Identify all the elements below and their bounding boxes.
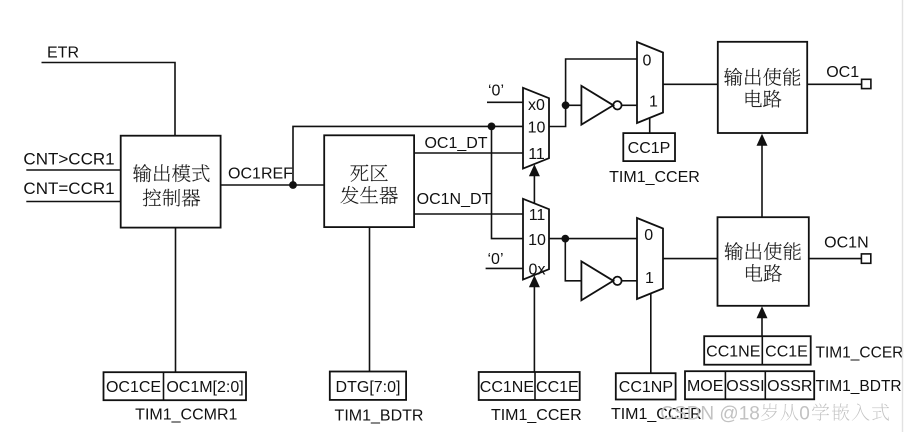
register MOE / OSSI / OSSR bbox=[685, 371, 814, 399]
svg-text:OC1CE: OC1CE bbox=[106, 379, 161, 396]
block U2 dead-time generator bbox=[324, 135, 414, 227]
inverter G2 bbox=[581, 261, 613, 300]
wire M2 output to enable block bbox=[663, 83, 718, 85]
wire U3 output to OC1 pad bbox=[807, 83, 861, 85]
svg-text:ETR: ETR bbox=[47, 45, 79, 62]
svg-text:DTG[7:0]: DTG[7:0] bbox=[336, 379, 401, 396]
svg-text:CC1NP: CC1NP bbox=[619, 379, 673, 396]
junction M3 output branch bbox=[561, 235, 569, 243]
wire U4 output to OC1N pad bbox=[809, 258, 862, 260]
wire OC1REF bbox=[221, 184, 325, 186]
junction on branch bbox=[488, 123, 496, 131]
svg-text:‘0’: ‘0’ bbox=[487, 251, 503, 268]
wire mux M3 output to mux M4 input 0 bbox=[549, 238, 637, 240]
wire G1 to mux M2 input 1 bbox=[622, 104, 637, 106]
wire CNT=CCR1 input bbox=[26, 201, 120, 203]
svg-text:MOE: MOE bbox=[687, 378, 723, 395]
svg-text:OC1N_DT: OC1N_DT bbox=[417, 191, 492, 208]
svg-text:TIM1_CCMR1: TIM1_CCMR1 bbox=[135, 407, 237, 424]
mux M3 bbox=[523, 199, 549, 280]
wire branch down to mux M3 input 10 bbox=[492, 126, 524, 238]
svg-text:OSSI: OSSI bbox=[726, 378, 764, 395]
mux M1 control arrow from M3 top bbox=[533, 175, 535, 203]
wire branch down to inverter G2 bbox=[565, 239, 581, 281]
mux M3 control arrow from CC1NE/CC1E register bbox=[533, 286, 535, 372]
block U1 output mode controller bbox=[121, 136, 221, 228]
wire M2 control to CC1P bbox=[649, 118, 651, 133]
svg-text:10: 10 bbox=[528, 232, 546, 249]
pad OC1N bbox=[861, 254, 870, 263]
wire U1 to OC1CE/OC1M register bbox=[175, 228, 177, 373]
svg-text:11: 11 bbox=[529, 207, 546, 224]
wire CC1NE/CC1E register to U4 with arrow bbox=[761, 317, 763, 336]
register CC1NE / CC1E (bottom middle) bbox=[479, 372, 580, 400]
svg-text:1: 1 bbox=[645, 270, 654, 287]
register OC1CE / OC1M[2:0] bbox=[104, 372, 247, 400]
wire M4 output to enable block U4 bbox=[663, 258, 718, 260]
svg-text:CC1NE: CC1NE bbox=[480, 379, 534, 396]
wire CNT>CCR1 input bbox=[26, 169, 120, 171]
svg-text:TIM1_CCER: TIM1_CCER bbox=[816, 345, 904, 362]
svg-text:x0: x0 bbox=[528, 97, 545, 114]
svg-text:0x: 0x bbox=[529, 261, 546, 278]
mux M2 bbox=[637, 42, 663, 123]
svg-text:0: 0 bbox=[799, 403, 810, 424]
svg-text:OC1: OC1 bbox=[826, 64, 859, 81]
svg-text:CNT=CCR1: CNT=CCR1 bbox=[23, 179, 114, 198]
inverter G1 bbox=[581, 86, 613, 125]
page edge line bbox=[902, 0, 904, 432]
wire mux M1 output up and to mux M2 input 0 bbox=[549, 59, 637, 127]
wire OC1REF branch to mux M1 input 10 bbox=[293, 126, 523, 185]
wire constant 0 to mux M3 input 0x bbox=[486, 267, 523, 269]
svg-text:TIM1_CCER: TIM1_CCER bbox=[491, 407, 582, 424]
svg-text:‘0’: ‘0’ bbox=[488, 82, 504, 99]
svg-text:OSSR: OSSR bbox=[767, 378, 812, 395]
svg-text:CNT>CCR1: CNT>CCR1 bbox=[23, 149, 114, 168]
wire M4 control to CC1NP bbox=[650, 294, 652, 373]
svg-text:CC1E: CC1E bbox=[536, 379, 579, 396]
svg-text:1: 1 bbox=[649, 93, 658, 110]
register DTG[7:0] bbox=[330, 372, 406, 400]
svg-text:TIM1_BDTR: TIM1_BDTR bbox=[335, 407, 424, 424]
svg-text:TIM1_CCER: TIM1_CCER bbox=[609, 169, 700, 186]
svg-text:10: 10 bbox=[528, 120, 546, 137]
register CC1NE / CC1E (right) bbox=[704, 336, 811, 365]
mux M1 bbox=[523, 88, 549, 169]
svg-text:CC1NE: CC1NE bbox=[706, 343, 760, 360]
block U3 output enable circuit (top) bbox=[718, 42, 807, 133]
svg-text:CSDN @18: CSDN @18 bbox=[660, 403, 760, 424]
wire OC1N_DT to mux M3 input 11 bbox=[414, 213, 523, 215]
svg-text:11: 11 bbox=[528, 146, 545, 163]
svg-text:CC1E: CC1E bbox=[765, 343, 808, 360]
svg-text:OC1M[2:0]: OC1M[2:0] bbox=[166, 379, 243, 396]
svg-text:TIM1_BDTR: TIM1_BDTR bbox=[816, 378, 902, 395]
svg-text:OC1REF: OC1REF bbox=[228, 165, 293, 182]
wire U4 to U3 with arrow bbox=[761, 144, 763, 217]
svg-text:0: 0 bbox=[643, 52, 652, 69]
wire ETR line bbox=[42, 63, 176, 136]
pad OC1 bbox=[862, 79, 871, 88]
junction M1 output branch bbox=[562, 101, 570, 109]
svg-text:OC1_DT: OC1_DT bbox=[424, 135, 487, 152]
wire to inverter G1 bbox=[566, 104, 582, 106]
junction on OC1REF bbox=[289, 181, 297, 189]
wire U2 to DTG register bbox=[369, 227, 371, 371]
svg-text:OC1N: OC1N bbox=[824, 234, 868, 251]
wire OC1_DT to mux M1 input 11 bbox=[414, 152, 523, 154]
block U4 output enable circuit (bottom) bbox=[718, 217, 809, 306]
register CC1NP bbox=[616, 373, 676, 399]
wire constant 0 to mux M1 input x0 bbox=[487, 101, 523, 103]
register CC1P bbox=[623, 133, 675, 161]
svg-text:CC1P: CC1P bbox=[628, 140, 671, 157]
wire G2 to mux M4 input 1 bbox=[622, 280, 637, 282]
mux M4 bbox=[637, 218, 663, 299]
svg-text:0: 0 bbox=[644, 227, 653, 244]
